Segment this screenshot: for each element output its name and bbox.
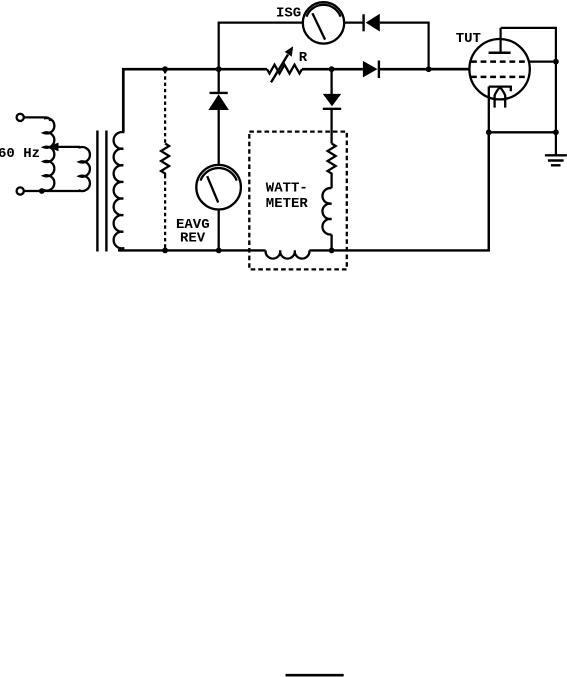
tube V1 grid 1 (dashed) [471, 60, 529, 63]
footer rule [286, 674, 344, 677]
svg-text:TUT: TUT [456, 31, 481, 47]
wire (grid to right bus) [529, 60, 556, 62]
wire [330, 234, 332, 250]
wire (CR1 to corner, down to bus) [380, 23, 429, 69]
wire (bus segment) [302, 68, 363, 71]
wire [24, 190, 80, 192]
wire (wattmeter branch top) [330, 69, 332, 94]
meter M2 scale arc [306, 5, 340, 17]
node (top bus / meter branch) [162, 66, 168, 72]
node (bottom bus / wattmeter coil) [329, 248, 335, 254]
svg-text:METER: METER [266, 196, 309, 212]
diode CR4 (cathode down) [323, 94, 341, 106]
wire [330, 109, 332, 144]
wire (bus into tube) [429, 68, 470, 71]
meter M2 needle [312, 13, 325, 39]
meter M1 EAVG (circle) [196, 165, 241, 210]
wire (ISG to CR1) [344, 22, 363, 24]
svg-text:REV: REV [180, 231, 206, 247]
node (bottom bus / dashed branch) [162, 248, 168, 254]
terminal J2 (bottom input) [17, 187, 24, 194]
wire (bottom bus left) [118, 249, 266, 251]
wiper arrow (variac tap) [49, 143, 58, 150]
node (right bus / cross wire) [553, 129, 559, 135]
svg-text:WATT-: WATT- [266, 181, 308, 197]
wire (EAVG branch upper) [218, 69, 220, 93]
meter M1 scale arc [201, 168, 237, 181]
wire (dashed link bottom) [164, 175, 166, 250]
wire (cross wire) [489, 131, 556, 133]
tube V1 envelope [469, 39, 529, 99]
wire (tap to primary) [56, 146, 80, 148]
resistor (meter multiplier) [161, 144, 169, 176]
wire (bottom bus right, riser to tube) [309, 132, 488, 250]
diode CR3 (on bus, cathode right) [363, 61, 378, 78]
tube V1 cathode [489, 87, 511, 92]
resistor (wattmeter voltage coil series R) [328, 144, 336, 175]
wire (bus to tube) [379, 68, 470, 71]
wire [330, 175, 332, 189]
diode CR1 (cathode left) [362, 14, 364, 31]
svg-text:60 Hz: 60 Hz [0, 146, 40, 162]
arrow (R adjustment) [271, 55, 288, 83]
svg-text:ISG: ISG [276, 6, 301, 22]
tube V1 plate [489, 52, 511, 55]
wattmeter box (dashed) [249, 132, 346, 270]
wire (EAVG bottom) [218, 210, 220, 251]
svg-text:R: R [299, 50, 308, 66]
wire [218, 110, 220, 165]
wire (cathode lead) [488, 87, 490, 251]
inductor L1 (variac winding) [43, 117, 54, 191]
meter M2 ISG (circle) [303, 2, 344, 43]
wire (to top branch) [219, 23, 303, 70]
tube V1 filament [495, 87, 506, 108]
ground [545, 154, 567, 156]
wire (secondary top riser) [123, 69, 267, 131]
node (bus / wattmeter branch) [329, 66, 335, 72]
diode CR2 (EAVG rectifier, cathode up) [210, 92, 228, 94]
node (grid / right bus) [553, 59, 559, 65]
node (bus / top branch rejoin) [426, 66, 432, 72]
node (junction variac bottom) [39, 188, 45, 194]
tube V1 grid 2 (dashed) [471, 76, 529, 79]
wire (plate to right bus) [501, 28, 556, 155]
terminal J1 (top input) [17, 114, 24, 121]
meter M1 needle [207, 176, 218, 202]
resistor R (variable, on bus) [267, 65, 302, 74]
transformer T1 primary [79, 147, 90, 191]
node (cathode / cross wire) [486, 129, 492, 135]
transformer T1 core [96, 131, 98, 252]
node (bottom bus / EAVG) [216, 248, 222, 254]
node (bus / EAVG branch) [216, 66, 222, 72]
wire [24, 116, 46, 118]
inductor (wattmeter current coil) [266, 250, 310, 258]
wire (dashed link top) [164, 70, 166, 144]
transformer T1 secondary [114, 131, 124, 251]
inductor (wattmeter voltage coil) [322, 188, 331, 234]
